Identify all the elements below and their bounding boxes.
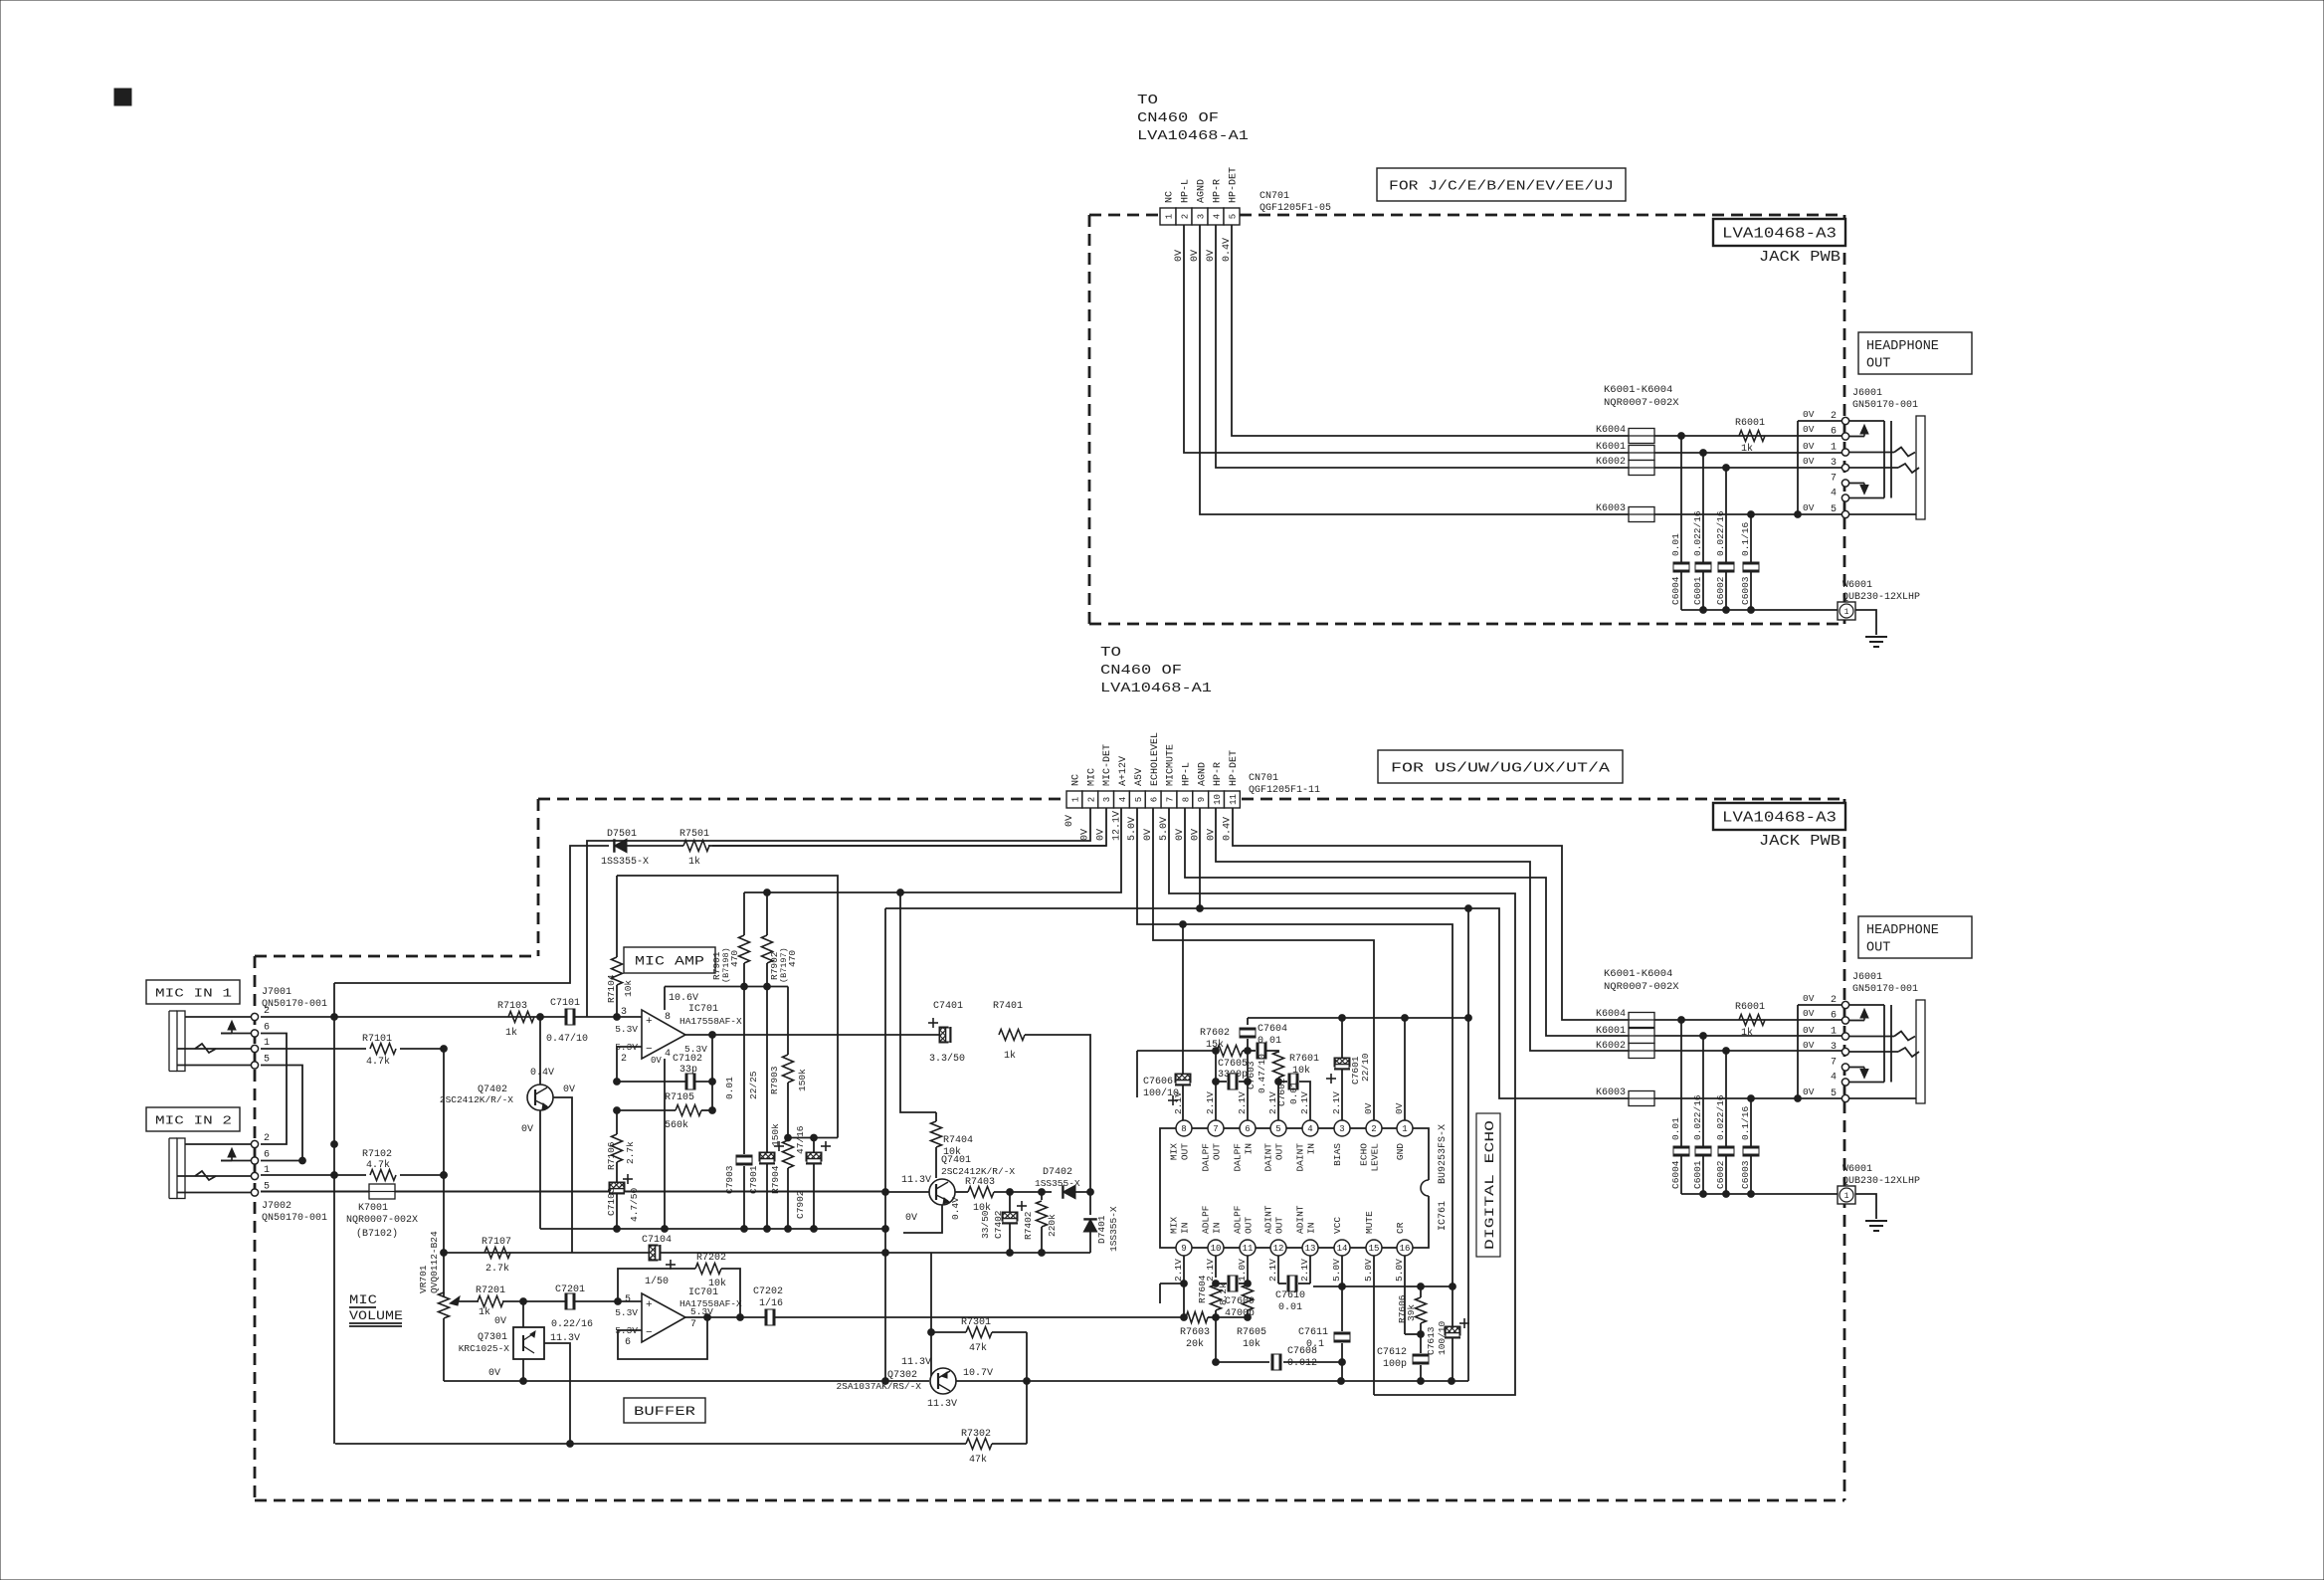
wire Q7402 collector [553,1097,572,1253]
svg-text:D7402: D7402 [1043,1167,1072,1178]
svg-text:3: 3 [1831,1042,1837,1053]
dashed board outline LVA10468-A3 (top) [1089,215,1844,624]
svg-text:10k: 10k [623,980,634,997]
IC761 top pin names [1169,1143,1407,1172]
capacitor C6001 0.022/16 (bottom) [1692,1094,1711,1156]
svg-text:NQR0007-002X: NQR0007-002X [346,1215,418,1226]
resistor R7103 1k [497,1001,534,1039]
svg-text:4: 4 [1307,1124,1312,1134]
svg-text:R7402: R7402 [1023,1211,1034,1240]
svg-text:2: 2 [1181,214,1191,219]
cap refs C6004 C6001 C6002 C6003 (top) [1670,576,1751,605]
wire mic2 node vertical [441,1049,448,1293]
svg-text:4.7k: 4.7k [366,1056,390,1068]
svg-text:0V: 0V [1065,815,1075,827]
svg-text:0.22/16: 0.22/16 [551,1318,593,1330]
wire mic2 signal row [261,1174,366,1176]
svg-text:C7613: C7613 [1426,1326,1437,1355]
svg-text:5.0V: 5.0V [1363,1259,1374,1282]
svg-text:K6001-K6004: K6001-K6004 [1604,384,1672,396]
svg-text:13: 13 [1305,1244,1316,1254]
svg-text:BUFFER: BUFFER [634,1404,695,1419]
capacitor C7601 22/10 [1326,1018,1371,1120]
label HEADPHONE OUT (bottom) [1858,916,1972,958]
wire HP-DET pin11 (bottom) [1233,808,1629,1020]
svg-text:R7605: R7605 [1237,1327,1266,1338]
capacitor C7901 22/25 [748,987,784,1230]
svg-text:2SC2412K/R/-X: 2SC2412K/R/-X [440,1094,513,1105]
svg-text:2: 2 [1371,1124,1376,1134]
ground bus to W6001 (bottom) [1681,1191,1838,1198]
svg-text:1: 1 [1070,797,1080,802]
svg-text:J7002: J7002 [262,1201,291,1212]
resistor R7202 10k [618,1253,743,1320]
svg-text:HP-R: HP-R [1213,179,1224,203]
svg-text:0V: 0V [1080,829,1091,841]
label MIC VOLUME [349,1292,403,1326]
svg-text:0V: 0V [1803,1086,1815,1097]
svg-text:3: 3 [621,1007,627,1018]
svg-text:OUT: OUT [1274,1217,1285,1234]
svg-text:VOLUME: VOLUME [349,1308,403,1323]
svg-text:C7610: C7610 [1275,1290,1305,1301]
jumper K6001 (bottom) [1596,1026,1842,1044]
svg-text:NQR0007-002X: NQR0007-002X [1604,981,1679,993]
svg-text:3: 3 [1339,1124,1344,1134]
svg-text:7: 7 [1831,474,1837,485]
wire Q7301 collector [544,1343,570,1444]
label J7002 QN50170-001 [262,1201,327,1224]
svg-text:6: 6 [1831,1011,1837,1022]
svg-text:0.1/16: 0.1/16 [1740,521,1751,556]
svg-text:OUT: OUT [1212,1143,1223,1160]
wire AGND pin3 to K6003 [1200,225,1629,514]
wire MICMUTE pin7 [1169,808,1515,1395]
svg-text:IN: IN [1244,1143,1255,1154]
svg-text:K6002: K6002 [1596,457,1626,468]
svg-text:2: 2 [264,1006,270,1017]
headphone jack J6001 (bottom) [1831,995,1925,1103]
label MIC IN 1 [146,980,240,1004]
transistor Q7402 2SC2412K/R/-X [440,1017,575,1135]
svg-text:QVQ0112-B24: QVQ0112-B24 [429,1231,440,1293]
label FOR US/UW/UG/UX/UT/A [1378,750,1623,783]
svg-text:4: 4 [1831,489,1837,499]
svg-text:R7105: R7105 [665,1092,694,1103]
capacitor C7902 47/16 [795,1125,831,1229]
svg-text:K7001: K7001 [358,1203,388,1214]
wire feedback to jack switches [331,983,338,1444]
wire pin15 MUTE drop [1373,1256,1375,1395]
svg-text:C7401: C7401 [933,1001,963,1012]
svg-text:A+12V: A+12V [1118,756,1129,786]
svg-text:R7904: R7904 [770,1165,781,1194]
svg-text:LVA10468-A1: LVA10468-A1 [1100,682,1212,696]
resistor R7404 10k [900,892,973,1178]
svg-text:−: − [646,1327,653,1339]
svg-text:+: + [646,1299,653,1311]
capacitor C7102 33p [614,1054,716,1089]
svg-text:0V: 0V [521,1124,533,1135]
svg-text:C6003: C6003 [1740,576,1751,605]
svg-text:0.022/16: 0.022/16 [1715,510,1726,556]
svg-text:C7103: C7103 [606,1187,617,1216]
svg-text:R7404: R7404 [943,1135,973,1146]
resistor R6001 1k (bottom) [1735,1002,1765,1039]
svg-text:2.1V: 2.1V [1299,1091,1310,1114]
svg-text:OUT: OUT [1180,1143,1191,1160]
capacitor C7101 0.47/10 [546,998,588,1045]
label J6001 GN50170-001 (top) [1852,388,1918,411]
svg-text:C7606: C7606 [1143,1077,1173,1087]
svg-text:HEADPHONE: HEADPHONE [1866,339,1939,354]
svg-text:0.012: 0.012 [1287,1358,1317,1369]
svg-text:2: 2 [1086,797,1096,802]
svg-text:C6001: C6001 [1692,1160,1703,1189]
svg-text:5.3V: 5.3V [615,1307,638,1318]
cap refs C6004 C6001 C6002 C6003 (bottom) [1670,1160,1751,1189]
svg-text:BU9253FS-X: BU9253FS-X [1438,1124,1449,1184]
svg-text:7: 7 [1213,1124,1218,1134]
svg-text:K6004: K6004 [1596,425,1626,436]
svg-text:A5V: A5V [1134,768,1145,786]
jumper K6002 [1596,457,1842,476]
svg-text:0V: 0V [1394,1102,1405,1114]
svg-text:DALPF: DALPF [1233,1143,1244,1172]
IC761 bottom pin names [1169,1205,1407,1234]
wire op2 minus loop [618,1314,710,1359]
capacitor C7608 0.012 [1213,1317,1346,1370]
wire op1 minus input [617,1047,642,1082]
svg-text:VR701: VR701 [418,1265,429,1293]
wire op1 fb vertical [711,1035,713,1110]
pin names CN701 bottom [1071,732,1241,786]
potentiometer VR701 QVQ0112-B24 [418,1231,460,1381]
jumper K6002 (bottom) [1596,1041,1842,1059]
svg-text:R7401: R7401 [993,1001,1023,1012]
capacitor C7903 0.01 [724,987,752,1230]
svg-text:47/16: 47/16 [795,1125,806,1154]
svg-text:33/50: 33/50 [980,1210,991,1239]
svg-text:1k: 1k [505,1027,517,1039]
svg-text:11: 11 [1243,1244,1254,1254]
label LVA10468-A3 (bottom) [1713,803,1845,850]
resistor R7904 150k [770,1123,794,1229]
svg-text:0V: 0V [563,1085,575,1095]
svg-text:K6002: K6002 [1596,1041,1626,1052]
svg-text:MIC: MIC [1086,768,1097,786]
svg-text:4: 4 [1118,797,1128,802]
svg-text:C7901: C7901 [748,1165,759,1194]
svg-text:C6001: C6001 [1692,576,1703,605]
svg-text:0.022/16: 0.022/16 [1692,510,1703,556]
resistor R7402 220k [1023,1192,1058,1253]
svg-text:C7605: C7605 [1218,1059,1248,1070]
svg-text:R7501: R7501 [679,829,709,840]
capacitor C7604 0.01 [1240,1018,1287,1051]
svg-text:BIAS: BIAS [1332,1143,1343,1166]
svg-text:IC761: IC761 [1438,1201,1449,1231]
svg-text:R7202: R7202 [696,1253,726,1264]
label K6001-K6004 NQR0007-002X (bottom) [1604,968,1679,993]
wire J7001-5 to J7002-6 [261,1066,305,1164]
svg-text:J6001: J6001 [1852,388,1882,399]
svg-text:2: 2 [621,1054,627,1065]
svg-text:0V: 0V [1803,1025,1815,1036]
svg-text:R7903: R7903 [769,1066,780,1094]
capacitor C7603 0.47/10 [1243,1043,1278,1093]
svg-text:0.01: 0.01 [1670,1117,1681,1140]
rail 5.0V VCC [1313,1284,1455,1290]
svg-text:NC: NC [1165,191,1176,203]
wire op2 output [685,1314,1187,1321]
junction dots on K rows (top) [1678,433,1802,518]
svg-text:DIGITAL ECHO: DIGITAL ECHO [1482,1120,1497,1250]
svg-text:R7601: R7601 [1289,1054,1319,1065]
svg-text:0V: 0V [1803,456,1815,467]
svg-text:5: 5 [264,1055,270,1066]
resistor R7104 10k [606,876,634,1017]
resistor R7606 39k [1397,1286,1427,1334]
diode D7501 1SS355-X [601,829,1106,868]
svg-text:0.01: 0.01 [724,1077,735,1099]
svg-text:HP-R: HP-R [1213,762,1224,786]
capacitor C7401 3.3/50 [928,1001,965,1065]
svg-text:1SS355-X: 1SS355-X [1108,1206,1119,1252]
wire feedback loop top [617,876,838,1138]
svg-text:D7401: D7401 [1096,1215,1107,1244]
svg-text:HEADPHONE: HEADPHONE [1866,923,1939,938]
svg-text:1: 1 [1844,1192,1849,1201]
svg-text:C6002: C6002 [1715,576,1726,605]
svg-text:GN50170-001: GN50170-001 [1852,400,1918,411]
svg-text:R7603: R7603 [1180,1327,1210,1338]
capacitor C7613 100/10 [1426,1286,1469,1381]
note TO CN460 OF LVA10468-A1 (top) [1137,94,1249,144]
svg-text:GND: GND [1395,1143,1406,1160]
svg-text:2.1V: 2.1V [1237,1091,1248,1114]
svg-text:TO: TO [1100,646,1121,661]
capacitor C6001 0.022/16 (top) [1692,510,1711,572]
note TO CN460 OF LVA10468-A1 (bottom) [1100,646,1212,696]
svg-text:R7301: R7301 [961,1317,991,1328]
svg-text:ECHO: ECHO [1359,1143,1370,1166]
svg-text:0V: 0V [1803,993,1815,1004]
svg-text:MIX: MIX [1169,1143,1180,1160]
svg-text:11.3V: 11.3V [901,1175,931,1186]
wire op1 output [685,1032,947,1039]
resistor R7901 (B7198) 470 [711,892,750,987]
wire supply rail 10.6V [665,983,788,990]
svg-text:IN: IN [1212,1223,1223,1234]
svg-text:HP-DET: HP-DET [1229,167,1240,203]
label HEADPHONE OUT (top) [1858,332,1972,374]
svg-text:OUT: OUT [1866,941,1890,956]
capacitor C6002 0.022/16 (bottom) [1715,1094,1734,1156]
svg-text:IC701: IC701 [688,1004,718,1015]
svg-text:JACK PWB: JACK PWB [1759,250,1840,266]
wire pin6 drop [1247,1082,1249,1120]
svg-text:D7501: D7501 [607,829,637,840]
svg-text:0.1: 0.1 [1306,1339,1324,1350]
svg-text:0V: 0V [1803,1008,1815,1019]
svg-text:K6001-K6004: K6001-K6004 [1604,968,1672,980]
svg-text:0.022/16: 0.022/16 [1692,1094,1703,1140]
wire pin16 CR [1405,1256,1424,1337]
svg-text:IN: IN [1306,1223,1317,1234]
svg-text:AGND: AGND [1197,179,1208,203]
svg-text:1: 1 [1831,1027,1837,1038]
wires capacitor bank verticals (bottom) [1681,1020,1751,1194]
svg-text:Q7301: Q7301 [478,1332,507,1343]
svg-text:VCC: VCC [1332,1217,1343,1234]
svg-text:5.0V: 5.0V [1394,1259,1405,1282]
resistor R7102 4.7k [362,1149,396,1181]
ground symbol (top) [1865,637,1887,647]
svg-text:2: 2 [264,1133,270,1144]
wire HP-L pin8 (bottom) [1185,808,1629,1036]
svg-text:K6003: K6003 [1596,1087,1626,1098]
svg-text:C7604: C7604 [1258,1024,1287,1035]
svg-text:MUTE: MUTE [1364,1211,1375,1234]
svg-text:J7001: J7001 [262,987,291,998]
resistor R7601 10k [1273,1052,1320,1085]
svg-text:20k: 20k [1186,1338,1204,1350]
label FOR J/C/E/B/EN/EV/EE/UJ [1377,168,1626,201]
labels 0V at jack rows (top) [1803,409,1815,513]
svg-text:0V: 0V [494,1316,506,1327]
svg-text:MIC IN 1: MIC IN 1 [155,986,232,1000]
wire pin14 VCC drop [1341,1256,1343,1286]
svg-text:QN50170-001: QN50170-001 [262,999,327,1010]
IC761 BU9253FS-X outline [1160,1124,1449,1248]
svg-text:2: 2 [1831,411,1837,422]
wire 0V riser x1476 [1465,908,1472,1381]
svg-text:0V: 0V [1096,829,1107,841]
svg-text:3: 3 [1831,458,1837,469]
svg-text:C7202: C7202 [753,1286,783,1297]
svg-text:150k: 150k [797,1069,808,1091]
wire W6001 to ground (bottom) [1855,1194,1876,1219]
svg-text:J6001: J6001 [1852,972,1882,983]
svg-text:R7104: R7104 [606,974,617,1003]
svg-text:R6001: R6001 [1735,1002,1765,1013]
svg-text:10k: 10k [1243,1338,1260,1350]
op-amp IC701a HA17558AF-X [615,993,742,1066]
svg-text:R7103: R7103 [497,1001,527,1012]
svg-text:1.0V: 1.0V [1237,1259,1248,1282]
capacitor C7602 0.01 [1276,1074,1310,1120]
svg-text:47k: 47k [969,1454,987,1466]
wire R7101 to node [400,1046,447,1053]
wire MIX IN branch [1160,1284,1184,1303]
wires capacitor bank verticals (top) [1681,436,1751,610]
svg-text:C6004: C6004 [1670,1160,1681,1189]
svg-text:1k: 1k [479,1306,490,1318]
svg-text:100/10: 100/10 [1437,1320,1448,1355]
svg-text:−: − [646,1044,653,1056]
svg-text:ADLPF: ADLPF [1233,1205,1244,1234]
svg-text:2.7k: 2.7k [625,1141,636,1164]
svg-text:4: 4 [665,1049,671,1060]
svg-text:MIC AMP: MIC AMP [635,954,704,969]
connector W6001 QUB230-12XLHP (bottom) [1838,1164,1920,1204]
svg-text:470: 470 [729,950,740,967]
svg-text:0.01: 0.01 [1288,1082,1299,1104]
svg-text:2.7k: 2.7k [485,1263,509,1275]
svg-text:C7611: C7611 [1298,1327,1328,1338]
resistor R7602 15k [1200,1028,1243,1057]
svg-text:GN50170-001: GN50170-001 [1852,984,1918,995]
svg-text:8: 8 [1181,797,1191,802]
svg-text:10k: 10k [708,1278,726,1289]
svg-text:3: 3 [1102,797,1112,802]
svg-text:11.3V: 11.3V [927,1399,957,1410]
svg-text:22/10: 22/10 [1360,1053,1371,1082]
svg-text:2.1V: 2.1V [1299,1259,1310,1282]
capacitor C7610 0.01 [1275,1256,1310,1313]
resistor R7101 4.7k [362,1034,396,1068]
svg-text:ADINT: ADINT [1295,1205,1306,1234]
svg-text:16: 16 [1400,1244,1411,1254]
svg-text:9: 9 [1181,1244,1186,1254]
capacitor C7103 4.7/50 [606,1174,640,1229]
capacitor C7202 1/16 [753,1286,783,1325]
svg-text:HA17558AF-X: HA17558AF-X [679,1016,742,1027]
IC761 edge segments [1192,1128,1397,1248]
svg-text:14: 14 [1337,1244,1348,1254]
wire 0V row mic volume [444,1378,929,1385]
svg-text:6: 6 [264,1023,270,1034]
svg-text:Q7401: Q7401 [941,1155,971,1166]
svg-text:K6001: K6001 [1596,1026,1626,1037]
jumper K6003 (bottom) [1596,1087,1842,1106]
wire pin9 MIX IN drop [1181,1256,1188,1317]
svg-text:1: 1 [1165,214,1175,219]
svg-text:K6001: K6001 [1596,442,1626,453]
resistor R6001 1k (top) [1735,418,1765,455]
svg-text:C6004: C6004 [1670,576,1681,605]
resistor R7604 8.2k [1197,1256,1229,1317]
dashed board outline LVA10468-A3 (bottom) [255,799,1844,1500]
capacitor C6004 0.01 (bottom) [1670,1117,1689,1156]
svg-text:10.7V: 10.7V [963,1368,993,1379]
svg-text:C7903: C7903 [724,1165,735,1194]
svg-text:R7604: R7604 [1197,1275,1208,1303]
resistor R7105 560k [614,1092,716,1131]
mic jack J7002 [169,1133,270,1199]
resistor R7501 1k [627,829,712,868]
IC761 pin circles [1176,1120,1413,1256]
svg-text:10: 10 [1213,794,1223,805]
capacitor C6003 0.1/16 (bottom) [1740,1105,1759,1156]
svg-text:OUT: OUT [1866,357,1890,372]
svg-text:4: 4 [1831,1073,1837,1084]
wire A+12V pin4 [744,808,1121,895]
headphone jack J6001 (top) [1831,411,1925,519]
page corner mark [114,89,131,105]
pin voltages CN701 bottom [1065,811,1234,841]
svg-text:C7101: C7101 [550,998,580,1009]
connector W6001 QUB230-12XLHP (top) [1838,580,1920,620]
resistor R7603 20k [1180,1312,1219,1351]
wire jack pin2 tie (bottom) [1798,1005,1842,1098]
svg-text:ADLPF: ADLPF [1201,1205,1212,1234]
wire MIC-DET pin3 [712,808,1106,846]
svg-text:MIC: MIC [349,1292,377,1307]
wire node row R7903 R7904 [785,1134,838,1141]
resistor R7301 47k [928,1317,1027,1354]
